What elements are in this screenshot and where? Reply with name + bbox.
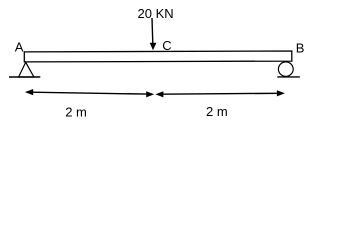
label B	[296, 40, 305, 55]
roller support at B (circle)	[278, 62, 293, 76]
dimension line C-B (2 m)	[155, 90, 285, 97]
label 2 m (right span)	[206, 104, 228, 119]
label A	[15, 40, 24, 55]
svg-text:A: A	[15, 40, 24, 55]
ground line at B	[277, 76, 300, 78]
svg-text:B: B	[296, 40, 305, 55]
svg-text:20 KN: 20 KN	[138, 6, 174, 21]
pin support at A (triangle)	[19, 62, 34, 77]
label 20 KN	[138, 6, 174, 21]
beam AB	[24, 51, 292, 62]
ground line at A	[9, 76, 40, 78]
svg-text:2 m: 2 m	[65, 104, 87, 119]
load arrow at C	[150, 18, 157, 50]
dimension line A-C (2 m)	[25, 89, 154, 97]
label C	[162, 38, 171, 53]
svg-text:2 m: 2 m	[206, 104, 228, 119]
label 2 m (left span)	[65, 104, 87, 119]
